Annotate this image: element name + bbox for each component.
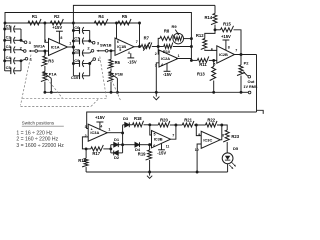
svg-text:SW1B: SW1B bbox=[100, 43, 112, 48]
potentiometer P1A bbox=[41, 72, 47, 82]
op-amp IC3A bbox=[88, 124, 107, 141]
wire: IC3C output riser to R22 node bbox=[220, 125, 222, 140]
svg-text:R2: R2 bbox=[54, 14, 60, 19]
svg-text:C3: C3 bbox=[6, 44, 12, 49]
potentiometer P2 bbox=[240, 55, 242, 66]
svg-text:-15V: -15V bbox=[157, 151, 166, 156]
diode D1 bbox=[114, 142, 119, 147]
supply +15V IC3A bbox=[99, 122, 101, 129]
svg-text:5: 5 bbox=[213, 62, 215, 66]
svg-text:1: 1 bbox=[108, 128, 110, 132]
wire: R12 to IC2B pin6 bbox=[205, 49, 217, 50]
svg-text:R12: R12 bbox=[196, 33, 204, 38]
svg-text:SW1A: SW1A bbox=[34, 44, 46, 49]
resistor R4 bbox=[94, 19, 108, 25]
op-amp IC3B bbox=[152, 131, 171, 148]
wire: D4 node to IC3B pin6 bbox=[150, 143, 152, 146]
capacitor C3 bbox=[5, 49, 11, 51]
op-amp IC2A bbox=[159, 50, 178, 67]
svg-text:IC2A: IC2A bbox=[161, 56, 170, 61]
wire: rail to IC1A pin2 bbox=[45, 23, 49, 42]
svg-text:4: 4 bbox=[128, 51, 130, 55]
capacitor C6 bbox=[73, 30, 79, 32]
switch SW1A contact 1 bbox=[25, 58, 28, 61]
diode D3 bbox=[125, 122, 130, 127]
svg-text:C6: C6 bbox=[74, 25, 80, 30]
svg-text:IC3C: IC3C bbox=[203, 137, 212, 142]
resistor R1 bbox=[28, 19, 41, 25]
potentiometer P2 wiper to output terminal bbox=[244, 72, 248, 76]
svg-text:IC3B: IC3B bbox=[154, 137, 163, 142]
potentiometer P1A wiper bbox=[50, 78, 52, 92]
op-amp IC1A bbox=[49, 39, 68, 56]
wire: stage2 capacitor rail (IC1A output node) bbox=[72, 23, 74, 76]
svg-text:R16: R16 bbox=[78, 158, 86, 163]
wire: IC2B output bbox=[235, 54, 257, 56]
resistor R8 bbox=[160, 34, 173, 40]
op-amp IC1B bbox=[115, 38, 134, 55]
ground bbox=[149, 172, 151, 176]
svg-text:IC2B: IC2B bbox=[219, 52, 228, 57]
svg-text:9: 9 bbox=[198, 133, 200, 137]
wire: C1-C2 junction to contact 3 bbox=[21, 29, 24, 42]
svg-text:R23: R23 bbox=[231, 134, 239, 139]
wire: R10 to node B bbox=[173, 46, 192, 48]
wire: C4-C5 junction to contact 1 bbox=[21, 59, 25, 71]
supply -15V IC1B bbox=[130, 53, 132, 58]
capacitor C2 bbox=[5, 39, 11, 41]
resistor R15 bbox=[221, 26, 234, 32]
wire: main top rail bbox=[5, 22, 140, 24]
resistor R19 bbox=[146, 150, 152, 160]
wire: SW1B node to R6 bbox=[110, 51, 112, 60]
resistor R3 bbox=[41, 56, 47, 66]
svg-text:R14: R14 bbox=[205, 15, 213, 20]
svg-text:-15V: -15V bbox=[163, 72, 172, 77]
svg-text:R18: R18 bbox=[134, 116, 142, 121]
trimmer R7 arrow bbox=[143, 43, 149, 51]
wire: bottom circuit ground rail bbox=[86, 171, 228, 173]
svg-text:R17: R17 bbox=[92, 151, 100, 156]
capacitor C4 bbox=[5, 60, 11, 62]
resistor R23 bbox=[223, 130, 229, 142]
diode D2 bbox=[114, 151, 119, 156]
svg-text:C8: C8 bbox=[74, 47, 80, 52]
svg-text:C9: C9 bbox=[74, 58, 80, 63]
wire: IC2A +input to ground rail bbox=[156, 63, 159, 93]
wire: bottom circuit top rail bbox=[87, 112, 257, 129]
svg-text:1 = 16 ÷ 220 Hz: 1 = 16 ÷ 220 Hz bbox=[16, 130, 53, 136]
switch SW1B contact 1 bbox=[93, 58, 96, 61]
svg-text:8: 8 bbox=[228, 45, 230, 49]
svg-text:8: 8 bbox=[60, 36, 62, 40]
switch SW1A contact 3 bbox=[24, 41, 27, 44]
capacitor C5 bbox=[5, 70, 11, 72]
wire: rail to IC1B pin6 bbox=[116, 23, 118, 39]
svg-text:+: + bbox=[91, 127, 93, 131]
potentiometer P1B bbox=[107, 72, 113, 82]
svg-text:R20: R20 bbox=[160, 117, 168, 122]
wire: stage1 capacitor rail bbox=[4, 23, 6, 71]
wire: IC3B output riser bbox=[171, 125, 176, 139]
svg-text:C1: C1 bbox=[6, 23, 12, 28]
resistor R16 bbox=[82, 158, 88, 167]
wire: R7 node risers bbox=[158, 38, 160, 46]
svg-text:R11: R11 bbox=[199, 62, 207, 67]
svg-text:2 = 160 ÷ 2200 Hz: 2 = 160 ÷ 2200 Hz bbox=[16, 137, 58, 143]
svg-text:P2: P2 bbox=[244, 60, 250, 65]
resistor R10 bbox=[164, 43, 173, 49]
svg-text:R4: R4 bbox=[98, 14, 104, 19]
svg-text:R9: R9 bbox=[172, 24, 178, 29]
wire: IC3A feedback to R17/D1 node bbox=[82, 137, 88, 149]
resistor R21 bbox=[182, 121, 194, 127]
svg-text:5: 5 bbox=[119, 48, 121, 52]
LED D5 bbox=[222, 153, 233, 164]
svg-text:6: 6 bbox=[211, 47, 213, 51]
svg-text:R1: R1 bbox=[32, 14, 38, 19]
svg-text:7: 7 bbox=[136, 40, 138, 44]
wire: R21 node to IC3C pin9 bbox=[196, 125, 201, 136]
svg-text:D2: D2 bbox=[114, 155, 120, 160]
resistor R20 bbox=[158, 121, 170, 127]
wire: IC2A output to node B bbox=[176, 59, 191, 61]
svg-text:2: 2 bbox=[155, 52, 157, 56]
svg-text:3 = 1600 ÷ 22000 Hz: 3 = 1600 ÷ 22000 Hz bbox=[16, 143, 64, 149]
wire: IC1A output riser / feedback top line bbox=[73, 5, 215, 23]
switch SW1A pole and wiper bbox=[35, 50, 38, 53]
svg-text:+15V: +15V bbox=[52, 25, 62, 30]
wire: output to bottom circuit bbox=[256, 55, 258, 113]
wire: R7 to node bbox=[152, 46, 164, 48]
svg-text:R7: R7 bbox=[144, 36, 150, 41]
supply -15V IC2A bbox=[166, 63, 168, 71]
wire: diode network column bbox=[122, 125, 124, 153]
potentiometer P1B wiper bbox=[116, 78, 118, 92]
svg-text:+15V: +15V bbox=[95, 115, 105, 120]
wire: IC3C pin10 from bottom rail bbox=[197, 144, 201, 172]
supply -15V IC3B bbox=[161, 144, 163, 150]
svg-text:R22: R22 bbox=[207, 117, 215, 122]
svg-text:C2: C2 bbox=[6, 35, 12, 40]
svg-text:R21: R21 bbox=[184, 117, 192, 122]
svg-text:P1A: P1A bbox=[49, 72, 57, 77]
svg-text:C5: C5 bbox=[6, 65, 12, 70]
wire: R11 to IC2B pin5 bbox=[209, 59, 217, 61]
resistor R5 bbox=[118, 19, 131, 25]
svg-text:6: 6 bbox=[153, 144, 155, 148]
wire: R12 top lead bbox=[205, 30, 215, 39]
wire: LED cathode to bottom rail bbox=[227, 164, 229, 172]
wire: R15 leads bbox=[215, 29, 221, 31]
capacitor C1 bbox=[5, 28, 11, 30]
wire: R20 left lead bbox=[150, 124, 158, 126]
wire: P1A to bottom rail bbox=[44, 82, 46, 93]
wire: R3 to P1A bbox=[44, 66, 46, 72]
svg-text:11: 11 bbox=[166, 145, 170, 149]
op-amp IC3C bbox=[201, 131, 220, 148]
wire: R6 to P1B bbox=[110, 68, 112, 71]
resistor R13 bbox=[210, 67, 216, 81]
wire: D4 row bbox=[123, 144, 135, 146]
resistor R2 bbox=[50, 19, 63, 25]
svg-text:5: 5 bbox=[154, 133, 156, 137]
svg-text:R13: R13 bbox=[197, 72, 205, 77]
resistor R7 bbox=[141, 43, 152, 49]
capacitor C8 bbox=[73, 52, 79, 54]
svg-text:+15V: +15V bbox=[221, 34, 231, 39]
wire: D3 leads bbox=[123, 124, 125, 126]
wire: R18 to IC3B node bbox=[144, 124, 150, 126]
wire: IC1A +input to R3 bbox=[44, 51, 46, 56]
wire: IC1A output bbox=[68, 46, 74, 48]
svg-text:D3: D3 bbox=[123, 116, 129, 121]
resistor R18 bbox=[133, 121, 144, 127]
wire: R17 leads bbox=[86, 148, 91, 150]
diode D4 bbox=[135, 142, 140, 147]
svg-text:D1: D1 bbox=[114, 137, 120, 142]
resistor R22 bbox=[206, 121, 217, 127]
svg-text:R6: R6 bbox=[115, 60, 121, 65]
ground bbox=[155, 92, 157, 96]
resistor R6 bbox=[107, 59, 113, 68]
switch SW1B pole and wiper bbox=[105, 50, 108, 53]
switch SW1B contact 2 bbox=[91, 50, 94, 53]
resistor R11 bbox=[197, 56, 208, 62]
svg-text:IC1A: IC1A bbox=[51, 45, 60, 50]
svg-text:R10: R10 bbox=[163, 49, 171, 54]
svg-text:R3: R3 bbox=[48, 58, 54, 63]
switch SW1A contact 2 bbox=[24, 50, 27, 53]
resistor R14 bbox=[214, 5, 216, 13]
svg-text:R8: R8 bbox=[164, 29, 170, 34]
wire: R19 from node to bottom rail bbox=[149, 145, 151, 150]
svg-text:8: 8 bbox=[222, 134, 224, 138]
svg-text:7: 7 bbox=[235, 49, 237, 53]
wire: C3 to contact 2 bbox=[21, 50, 23, 51]
switch mechanical link (dashed) bbox=[21, 55, 32, 106]
svg-text:R15: R15 bbox=[223, 22, 231, 27]
wire: IC1B output bbox=[134, 46, 141, 48]
svg-text:Switch positions: Switch positions bbox=[22, 121, 55, 126]
svg-text:2: 2 bbox=[44, 39, 46, 43]
svg-text:R19: R19 bbox=[138, 152, 146, 157]
svg-text:1V RMS: 1V RMS bbox=[243, 85, 258, 89]
capacitor C10 bbox=[73, 75, 79, 77]
output terminal Out bbox=[248, 75, 251, 78]
wire: input feedback line (node B to input node) bbox=[5, 13, 191, 61]
resistor R17 bbox=[91, 145, 104, 151]
supply +15V bbox=[225, 40, 227, 50]
wire: P1B to bottom rail bbox=[110, 82, 112, 93]
resistor R12 bbox=[201, 39, 207, 50]
wire: D1/D2 left column bbox=[110, 145, 112, 153]
svg-text:R5: R5 bbox=[122, 14, 128, 19]
capacitor C7 bbox=[73, 40, 79, 42]
wire: IC3A output bbox=[107, 132, 122, 134]
wire: R20-R21 lead bbox=[170, 124, 183, 126]
wire: bottom signal rail bbox=[45, 91, 241, 93]
wire: C8 to contact 2 bbox=[90, 52, 92, 53]
svg-text:Out: Out bbox=[247, 79, 255, 84]
svg-text:1: 1 bbox=[178, 54, 180, 58]
svg-text:C10: C10 bbox=[71, 75, 79, 80]
wire: C6-C7 junction to contact 3 bbox=[90, 31, 93, 43]
wire: R16 from node to bottom rail bbox=[85, 149, 87, 158]
svg-text:C4: C4 bbox=[6, 55, 12, 60]
LED D5 light arrows bbox=[232, 163, 235, 166]
svg-text:-15V: -15V bbox=[128, 59, 137, 64]
wire: node B to R11 bbox=[191, 59, 197, 61]
svg-text:6: 6 bbox=[117, 40, 119, 44]
svg-text:P1B: P1B bbox=[115, 72, 123, 77]
LDR R9 bbox=[173, 33, 184, 44]
svg-text:1: 1 bbox=[69, 42, 71, 46]
supply +15V IC1A bbox=[58, 31, 60, 43]
wire: R9 to node B bbox=[184, 38, 192, 40]
wire: C9-C10 junction to contact 1 bbox=[90, 60, 93, 76]
wire: node to IC3B pin5 bbox=[150, 125, 152, 135]
switch SW1B contact 3 bbox=[92, 41, 95, 44]
svg-text:4: 4 bbox=[161, 63, 163, 67]
svg-text:7: 7 bbox=[172, 133, 174, 137]
op-amp IC2B bbox=[217, 46, 235, 63]
wire: rail end to IC1B output node bbox=[139, 23, 141, 47]
wire: D1/D2 leads bbox=[111, 144, 114, 146]
output terminal ground side bbox=[241, 91, 248, 93]
svg-text:C7: C7 bbox=[74, 35, 80, 40]
svg-text:4: 4 bbox=[101, 125, 103, 129]
wire: R13 from R11 node to ground rail bbox=[213, 60, 215, 66]
svg-text:D5: D5 bbox=[233, 146, 239, 151]
capacitor C9 bbox=[73, 63, 79, 65]
svg-text:3: 3 bbox=[85, 125, 87, 129]
